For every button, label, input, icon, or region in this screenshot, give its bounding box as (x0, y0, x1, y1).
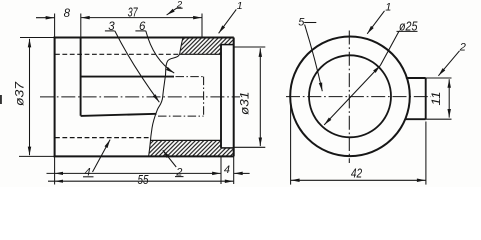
leader 4 (bottom left) underline (83, 176, 94, 178)
svg-text:2: 2 (175, 166, 182, 178)
svg-text:1: 1 (385, 2, 391, 14)
bore top edge (81, 76, 174, 78)
tab bottom edge (405, 118, 426, 120)
leader 1 (right) (367, 11, 384, 34)
inner circle dia25 (309, 55, 391, 137)
svg-text:ø25: ø25 (399, 19, 418, 33)
leader 6 arrow (146, 31, 174, 73)
leader 2 (bottom) arrow (163, 150, 176, 167)
svg-text:2: 2 (176, 0, 183, 10)
svg-text:1: 1 (237, 0, 243, 12)
svg-text:55: 55 (138, 172, 150, 187)
leader 2 (top) arrow (167, 8, 177, 15)
dia25 leader extension (380, 31, 399, 65)
wavy break line (149, 38, 183, 157)
cap inner top edge (221, 44, 234, 46)
leader 1 (top) (219, 9, 237, 33)
svg-text:11: 11 (429, 92, 443, 106)
leader 3 shoulder (105, 30, 115, 32)
svg-text:ø31: ø31 (240, 92, 252, 115)
wrong dash-dot box top (176, 76, 204, 78)
top edge extension (left, thin, for dia37) (20, 37, 54, 39)
leader 4 (bottom left) arrow (93, 140, 111, 172)
dim 11 line (448, 79, 450, 117)
dim 4 right outside arrow (234, 172, 250, 174)
body top edge (54, 37, 234, 39)
scan smudge left margin (0, 95, 2, 104)
bore bottom edge (81, 114, 157, 116)
bottom extension cap right (233, 156, 235, 184)
center line (left view) (40, 96, 240, 98)
dim 42 line (291, 179, 426, 181)
svg-text:8: 8 (64, 8, 71, 20)
hatch bottom boundary (section edge) (151, 139, 221, 141)
dim 11 top extension (426, 77, 452, 79)
hidden dashed line bottom (55, 137, 151, 139)
dim 37 line with arrows (81, 17, 202, 19)
svg-text:2: 2 (459, 41, 466, 53)
svg-text:42: 42 (351, 165, 363, 180)
svg-text:3: 3 (108, 21, 115, 33)
leader 5 arrow (305, 25, 323, 92)
leader 2 (bottom) underline (175, 176, 184, 178)
outer circle (290, 37, 410, 157)
leader 6 shoulder (135, 30, 145, 32)
bottom edge extension (left, thin, for dia37) (19, 155, 54, 157)
wrong dash-dot box bottom (158, 115, 204, 117)
step / bore left edge (80, 38, 82, 116)
cap inner bottom edge (221, 147, 234, 149)
dim 8 left outside arrow (36, 17, 54, 19)
dim 11 bottom extension (426, 118, 452, 120)
bottom extension left edge (54, 156, 56, 184)
svg-text:ø37: ø37 (15, 81, 27, 106)
vertical center line (348, 31, 350, 164)
dim 37 right extension line (201, 14, 203, 38)
dim line 55 (48, 180, 233, 182)
svg-text:37: 37 (128, 5, 139, 19)
leader 2 (top) shoulder (177, 7, 183, 9)
dim 42 right extension (425, 122, 427, 185)
hatch section top (sleeve wall + cap ring) (180, 38, 234, 54)
dim 8 extension line left (54, 14, 56, 38)
horizontal center line (286, 96, 431, 98)
erroneous dim line (55 level 1) (47, 172, 221, 174)
hatch section bottom (149, 140, 234, 155)
cap right edge (233, 38, 235, 157)
dia31 dimension line (259, 48, 261, 146)
body left edge (54, 38, 56, 157)
hatch top boundary (section edge) (180, 53, 221, 55)
leader 2 (right) (438, 51, 459, 76)
wrong dash-dot box right (203, 77, 205, 117)
tab top edge (406, 77, 426, 79)
svg-text:4: 4 (84, 166, 90, 178)
dia25 diameter dimension line (324, 66, 380, 125)
body right edge (220, 45, 222, 148)
hidden dashed line top (55, 53, 180, 55)
dia31 bottom extension (234, 146, 265, 148)
dia25 shoulder (397, 30, 418, 32)
tab right edge (425, 78, 427, 119)
svg-text:6: 6 (139, 21, 146, 33)
dim 42 left extension (290, 103, 292, 185)
svg-text:4: 4 (224, 164, 230, 176)
svg-text:5: 5 (298, 17, 305, 29)
dia31 top extension (234, 46, 265, 48)
body bottom edge (54, 155, 234, 157)
bottom extension body right (220, 156, 222, 184)
dia37 dimension line (29, 39, 31, 155)
leader 5 shoulder (304, 22, 316, 24)
leader 3 arrow (115, 31, 160, 102)
dim 8/37 shared extension line (80, 14, 82, 38)
